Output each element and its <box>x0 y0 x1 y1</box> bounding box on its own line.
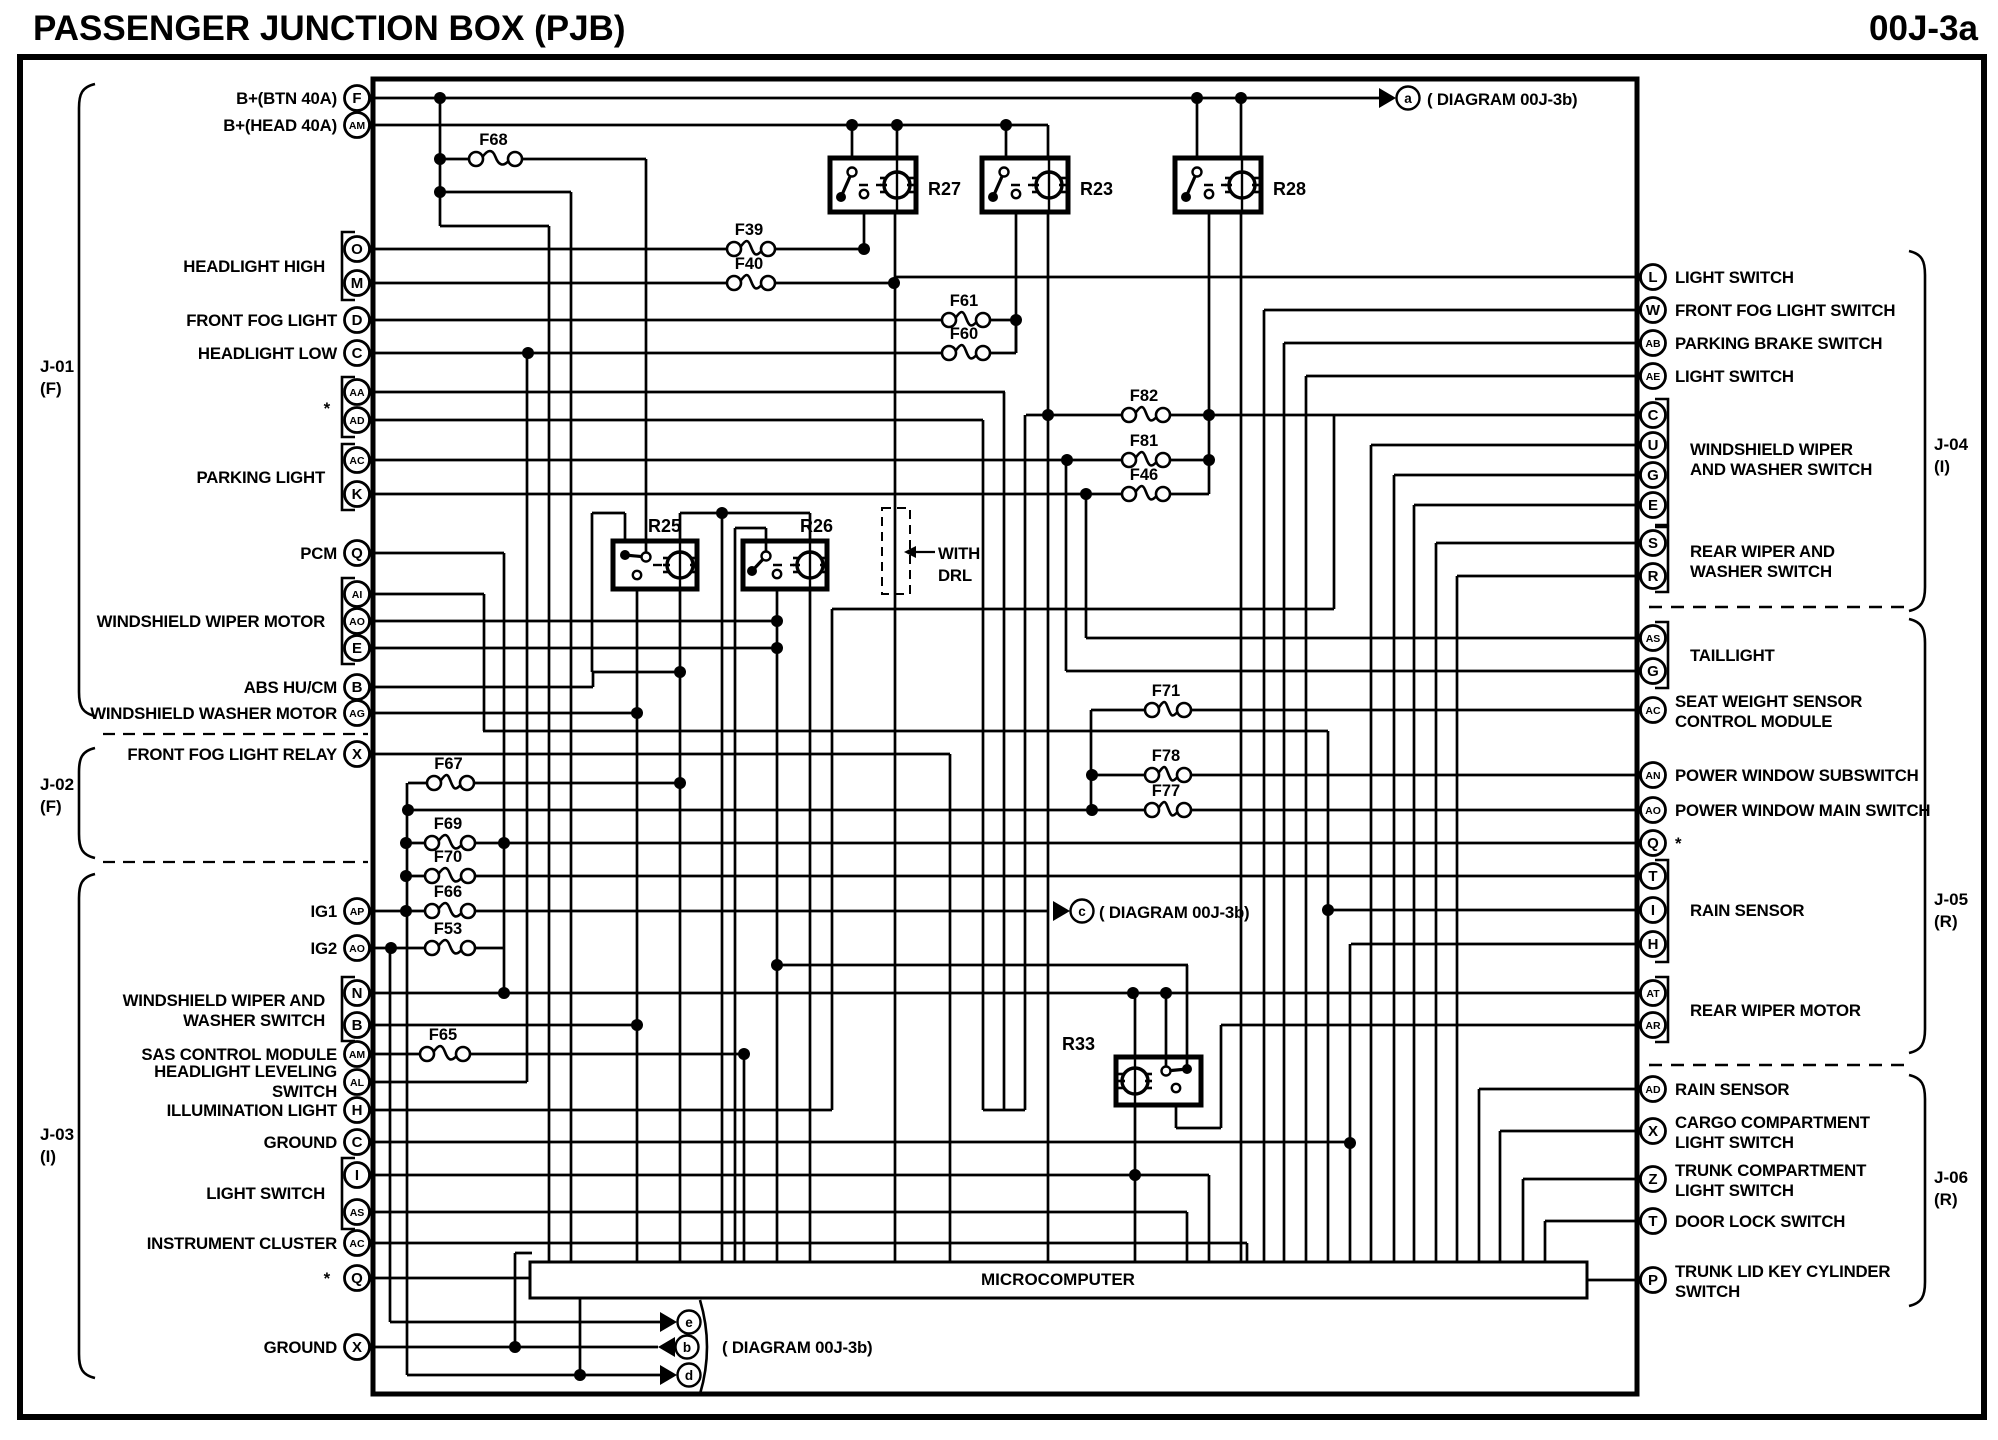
svg-text:I: I <box>355 1167 359 1184</box>
wire F67 row <box>408 782 427 785</box>
wire right pin U row <box>1371 444 1639 447</box>
connector bracket J-02 <box>79 748 95 858</box>
wire rain sensor I feed row <box>483 730 1328 733</box>
svg-text:H: H <box>1648 936 1659 953</box>
svg-text:R27: R27 <box>928 179 961 199</box>
svg-text:HEADLIGHT LEVELING: HEADLIGHT LEVELING <box>154 1062 337 1081</box>
relay R25 <box>613 516 697 589</box>
svg-text:T: T <box>1648 868 1657 885</box>
wire right E riser <box>1413 505 1416 1262</box>
bracket light switch group <box>342 1158 355 1229</box>
svg-text:AD: AD <box>1645 1084 1661 1096</box>
wire right pin E row <box>1414 504 1639 507</box>
svg-text:F66: F66 <box>434 883 462 901</box>
svg-text:DOOR LOCK SWITCH: DOOR LOCK SWITCH <box>1675 1212 1845 1231</box>
svg-text:TRUNK LID KEY CYLINDER: TRUNK LID KEY CYLINDER <box>1675 1262 1890 1281</box>
pin left C headlight low <box>345 341 370 366</box>
svg-text:*: * <box>324 1269 331 1288</box>
bracket headlight high group <box>342 232 355 300</box>
junction F66 tap <box>400 905 412 917</box>
wire R25 switch feed <box>592 512 625 515</box>
wire F61 output <box>990 319 1016 322</box>
wire right pin AE row <box>1306 375 1639 378</box>
pin right T door lock switch <box>1641 1209 1666 1234</box>
svg-text:E: E <box>1648 497 1658 514</box>
svg-text:POWER WINDOW SUBSWITCH: POWER WINDOW SUBSWITCH <box>1675 766 1919 785</box>
svg-text:RAIN SENSOR: RAIN SENSOR <box>1675 1080 1789 1099</box>
junction F46 input tap <box>1080 488 1092 500</box>
svg-text:F77: F77 <box>1152 782 1180 800</box>
wire ABS HU/CM B row <box>374 686 593 689</box>
svg-text:AO: AO <box>1645 805 1661 817</box>
wire F66 output to arrow c <box>475 910 1049 913</box>
svg-text:AD: AD <box>349 415 365 427</box>
svg-text:Q: Q <box>351 1270 363 1287</box>
wire front fog light D / F61 row <box>374 319 942 322</box>
svg-text:a: a <box>1404 91 1412 106</box>
wire ground C row <box>374 1141 1350 1144</box>
wire wiper switch B row <box>374 1024 637 1027</box>
svg-text:AB: AB <box>1645 338 1661 350</box>
dashed separator J-01/J-02 <box>103 733 368 735</box>
svg-text:POWER WINDOW MAIN SWITCH: POWER WINDOW MAIN SWITCH <box>1675 801 1930 820</box>
wire F81 output <box>1170 459 1209 462</box>
wire F69 output / right Q row <box>475 842 1639 845</box>
svg-text:M: M <box>351 275 364 292</box>
svg-text:F68: F68 <box>479 131 507 149</box>
svg-text:AI: AI <box>352 589 363 601</box>
pin right AT rear wiper motor <box>1641 981 1666 1006</box>
svg-text:WINDSHIELD WIPER: WINDSHIELD WIPER <box>1690 440 1853 459</box>
svg-text:Q: Q <box>351 545 363 562</box>
pin left H illumination <box>345 1098 370 1123</box>
svg-text:L: L <box>1648 269 1657 286</box>
svg-text:AS: AS <box>1646 633 1661 645</box>
wire R25 coil output riser <box>679 589 682 1262</box>
pin left AM SAS module <box>345 1042 370 1067</box>
svg-text:HEADLIGHT HIGH: HEADLIGHT HIGH <box>183 257 325 276</box>
pin right AB parking brake switch <box>1641 331 1666 356</box>
svg-text:TAILLIGHT: TAILLIGHT <box>1690 646 1776 665</box>
wire F82 feed riser <box>1024 415 1027 1110</box>
svg-text:*: * <box>324 399 331 418</box>
wire F65 output riser <box>743 1054 746 1262</box>
svg-text:PASSENGER JUNCTION BOX (PJB): PASSENGER JUNCTION BOX (PJB) <box>33 9 626 48</box>
junction F81 out to R28 <box>1203 454 1215 466</box>
svg-text:AA: AA <box>349 387 365 399</box>
wire cargo X riser <box>1499 1131 1502 1262</box>
wire trunk key P row <box>1587 1279 1639 1282</box>
junction F68 input <box>434 153 446 165</box>
pin right I rain sensor <box>1641 898 1666 923</box>
svg-text:AR: AR <box>1645 1020 1661 1032</box>
wire B+ branch riser <box>439 98 442 226</box>
svg-text:RAIN SENSOR: RAIN SENSOR <box>1690 901 1804 920</box>
wire right R riser <box>1456 576 1459 1262</box>
pin left AG washer motor <box>345 701 370 726</box>
wire trunk light Z row <box>1523 1178 1639 1181</box>
bracket wiper washer switch right group <box>1655 399 1668 525</box>
wire PCM Q riser <box>503 553 506 993</box>
pin right AO power window main switch <box>1641 798 1666 823</box>
dashed separator J-04/J-05 <box>1649 606 1906 609</box>
wire PCM Q row <box>374 552 504 555</box>
svg-text:F60: F60 <box>950 325 978 343</box>
pin left B wiper switch <box>345 1013 370 1038</box>
junction arrow d tap <box>574 1369 586 1381</box>
junction F69 tap <box>400 837 412 849</box>
wire F82 output / wiper switch C row <box>1170 414 1639 417</box>
wire headlight low C / F60 row <box>374 352 942 355</box>
bracket rain sensor group <box>1655 860 1668 962</box>
svg-text:WINDSHIELD WASHER MOTOR: WINDSHIELD WASHER MOTOR <box>90 704 337 723</box>
wire right pin G row <box>1394 474 1639 477</box>
wire F82 feed row <box>1026 414 1122 417</box>
pin left AI wiper motor <box>345 582 370 607</box>
svg-text:AG: AG <box>349 708 365 720</box>
svg-text:LIGHT SWITCH: LIGHT SWITCH <box>1675 1133 1794 1152</box>
svg-text:REAR WIPER MOTOR: REAR WIPER MOTOR <box>1690 1001 1861 1020</box>
svg-text:SEAT WEIGHT SENSOR: SEAT WEIGHT SENSOR <box>1675 692 1862 711</box>
svg-text:J-04: J-04 <box>1934 435 1969 454</box>
wire F78 / power window subswitch AN row <box>1092 774 1145 777</box>
wire R23 coil output riser <box>1047 212 1050 1262</box>
svg-text:F78: F78 <box>1152 747 1180 765</box>
svg-text:AM: AM <box>349 1049 366 1061</box>
wire R25 coil top stub <box>679 513 682 541</box>
pin left D front fog light <box>345 308 370 333</box>
svg-text:(F): (F) <box>40 797 62 816</box>
junction F81 input tap <box>1061 454 1073 466</box>
svg-text:AT: AT <box>1646 988 1660 1000</box>
svg-text:F70: F70 <box>434 848 462 866</box>
svg-text:G: G <box>1647 663 1659 680</box>
wire headlight-high O / F39 row <box>374 248 727 251</box>
fuse F78 <box>1145 747 1191 782</box>
wire right pin W row <box>1264 309 1639 312</box>
junction ground to H riser <box>1344 1137 1356 1149</box>
wire R27 switch output stub <box>863 212 866 249</box>
junction AO row to R26 switch <box>771 615 783 627</box>
off-page arrow a (to diagram 00J-3b) <box>1379 88 1396 108</box>
wire rain sensor I riser <box>1327 731 1330 1262</box>
wire fuse feed bus <box>406 783 409 1375</box>
wire washer motor AG row <box>374 712 637 715</box>
wire ABS B jog <box>593 671 680 674</box>
pin right L light switch <box>1641 265 1666 290</box>
wire R25/R26 coil feed <box>680 512 810 515</box>
off-page arrow d (to diagram 00J-3b) <box>660 1365 677 1385</box>
svg-text:J-06: J-06 <box>1934 1168 1968 1187</box>
svg-text:( DIAGRAM 00J-3b): ( DIAGRAM 00J-3b) <box>1427 90 1577 109</box>
junction I row to R33 <box>1129 1169 1141 1181</box>
wire B+(HEAD 40A) AM bus <box>374 124 1048 127</box>
svg-text:F46: F46 <box>1130 466 1158 484</box>
svg-text:F39: F39 <box>735 221 763 239</box>
junction F78 tap <box>1086 769 1098 781</box>
svg-text:W: W <box>1646 302 1661 319</box>
wire R33 coil top riser <box>1134 993 1137 1057</box>
wire R25 pivot feed riser <box>645 159 648 557</box>
wire right AD riser <box>1478 1089 1481 1262</box>
pin left B ABS HU/CM <box>345 675 370 700</box>
junction F82 to R23 coil <box>1042 409 1054 421</box>
pin left E wiper motor <box>345 636 370 661</box>
wire door lock T riser <box>1544 1221 1547 1262</box>
pin right Q * <box>1641 831 1666 856</box>
pin left X ground <box>345 1335 370 1360</box>
svg-text:LIGHT SWITCH: LIGHT SWITCH <box>1675 1181 1794 1200</box>
wire pin AA row <box>374 391 1005 394</box>
svg-text:C: C <box>352 345 363 362</box>
svg-text:LIGHT SWITCH: LIGHT SWITCH <box>1675 367 1794 386</box>
wire right pin S row <box>1436 542 1639 545</box>
junction F67 out node <box>674 777 686 789</box>
connector bracket J-06 <box>1909 1075 1925 1306</box>
fuse F66 <box>425 883 475 918</box>
svg-text:AC: AC <box>349 455 365 467</box>
off-page arrow e (to diagram 00J-3b) <box>660 1312 677 1332</box>
wire F60 output <box>990 352 1016 355</box>
svg-text:IG1: IG1 <box>311 902 337 921</box>
junction F40 out node <box>888 277 900 289</box>
pin left Q PCM <box>345 541 370 566</box>
junction F bus to R28 coil <box>1235 92 1247 104</box>
svg-text:ABS HU/CM: ABS HU/CM <box>244 678 337 697</box>
svg-text:AO: AO <box>349 616 365 628</box>
wire headlight-high M / F40 row <box>374 282 727 285</box>
wire headlight-low to leveling riser <box>526 353 529 1082</box>
svg-text:F: F <box>352 90 361 107</box>
junction N to R33 switch <box>1160 987 1172 999</box>
wire wiper C hang riser <box>1333 415 1336 609</box>
wire R26 switch top riser <box>734 528 737 1262</box>
off-page arrow c (to diagram 00J-3b) <box>1053 901 1070 921</box>
svg-text:AO: AO <box>349 943 365 955</box>
svg-text:F40: F40 <box>735 255 763 273</box>
svg-text:FRONT FOG LIGHT RELAY: FRONT FOG LIGHT RELAY <box>127 745 337 764</box>
wire wiper switch N / rear wiper AT row <box>374 992 1639 995</box>
svg-text:AL: AL <box>350 1077 365 1089</box>
wire wiper motor E row <box>374 647 777 650</box>
junction F65 out node <box>738 1048 750 1060</box>
svg-text:(R): (R) <box>1934 1190 1958 1209</box>
junction F61 out node <box>1010 314 1022 326</box>
svg-text:X: X <box>352 746 362 763</box>
pin right R rear wiper switch <box>1641 564 1666 589</box>
wire R26 coil top stub <box>809 513 812 541</box>
wire SAS control module AM / F65 row <box>374 1053 420 1056</box>
pin left C ground <box>345 1130 370 1155</box>
pin right G taillight <box>1641 659 1666 684</box>
svg-text:F82: F82 <box>1130 387 1158 405</box>
junction B jog node <box>674 666 686 678</box>
svg-text:E: E <box>352 640 362 657</box>
wire R25 switch output riser <box>636 589 639 1262</box>
dashed separator J-02/J-03 <box>103 861 368 863</box>
svg-text:D: D <box>352 312 363 329</box>
fuse F40 <box>727 255 775 290</box>
wire pin AD row <box>374 419 983 422</box>
wire right AE riser <box>1305 376 1308 1262</box>
wire F71 output <box>1191 709 1639 712</box>
wire F65 output <box>470 1053 744 1056</box>
bracket wiper washer switch group <box>342 977 355 1041</box>
svg-text:AC: AC <box>1645 705 1661 717</box>
PJB main box <box>373 79 1637 1394</box>
bracket wiper motor group <box>342 578 355 664</box>
svg-text:J-02: J-02 <box>40 775 74 794</box>
fuse F77 <box>1145 782 1191 817</box>
svg-text:H: H <box>352 1102 363 1119</box>
junction IG2 tap <box>385 942 397 954</box>
pin left AC parking light <box>345 448 370 473</box>
svg-text:X: X <box>1648 1123 1658 1140</box>
svg-text:R28: R28 <box>1273 179 1306 199</box>
pin left F (B+ BTN 40A) <box>345 86 370 111</box>
wire wiper motor AO row <box>374 620 777 623</box>
svg-text:R33: R33 <box>1062 1034 1095 1054</box>
svg-text:R: R <box>1648 568 1659 585</box>
wire R28 coil output riser <box>1240 212 1243 1262</box>
pin left I light switch <box>345 1163 370 1188</box>
wire trunk Z riser <box>1522 1179 1525 1262</box>
fuse F81 <box>1122 432 1170 467</box>
wire R23 coil top stub <box>1047 125 1050 158</box>
wire ABS B jog riser <box>592 672 595 687</box>
wire light switch L row <box>894 276 1639 279</box>
svg-text:(F): (F) <box>40 379 62 398</box>
svg-text:(I): (I) <box>1934 457 1950 476</box>
pin right AD rain sensor <box>1641 1077 1666 1102</box>
fuse F68 <box>469 131 522 166</box>
bracket e/b/d group <box>700 1300 707 1394</box>
wire pin AA riser <box>1003 392 1006 1110</box>
svg-text:SWITCH: SWITCH <box>272 1082 337 1101</box>
pin left O headlight high <box>345 237 370 262</box>
junction N row node <box>498 987 510 999</box>
junction F70 tap <box>400 870 412 882</box>
svg-text:G: G <box>1647 467 1659 484</box>
wire R26 switch top stub <box>765 528 768 557</box>
svg-text:S: S <box>1648 535 1658 552</box>
wire taillight G row <box>1066 670 1639 673</box>
svg-text:F53: F53 <box>434 920 462 938</box>
svg-text:CONTROL MODULE: CONTROL MODULE <box>1675 712 1832 731</box>
wire parking light K / F46 row <box>374 493 1122 496</box>
relay R23 <box>982 158 1113 212</box>
svg-text:REAR WIPER AND: REAR WIPER AND <box>1690 542 1835 561</box>
bracket taillight group <box>1655 622 1668 688</box>
svg-text:b: b <box>683 1340 691 1355</box>
off-page arrow b (from diagram 00J-3b) <box>658 1337 675 1357</box>
wire F68 branch upper riser <box>570 192 573 1262</box>
wire right pin AB row <box>1284 342 1639 345</box>
junction N to R33 coil <box>1127 987 1139 999</box>
junction F bus to R28 switch <box>1191 92 1203 104</box>
svg-text:J-05: J-05 <box>1934 890 1968 909</box>
svg-text:WINDSHIELD WIPER MOTOR: WINDSHIELD WIPER MOTOR <box>97 612 325 631</box>
junction AM bus to R27 switch <box>846 119 858 131</box>
wire F40 output to node <box>775 282 894 285</box>
fuse F69 <box>425 815 475 850</box>
svg-text:F61: F61 <box>950 292 978 310</box>
wire R27 coil output riser <box>894 212 897 1262</box>
wire R33 switch blade riser <box>1186 965 1189 1069</box>
pin right X cargo light switch <box>1641 1119 1666 1144</box>
junction R33 switch feed tap <box>771 959 783 971</box>
wire right AB riser <box>1283 343 1286 1262</box>
svg-text:B+(HEAD 40A): B+(HEAD 40A) <box>223 116 337 135</box>
junction AM bus to R27 coil <box>891 119 903 131</box>
wire R27 switch top stub <box>851 125 854 158</box>
wire right pin R row <box>1457 575 1639 578</box>
wire light switch AS row <box>374 1211 1187 1214</box>
wire arrow-b riser link <box>515 1252 532 1255</box>
wire R33 to rear wiper AR riser <box>1220 1025 1223 1128</box>
wire R25 switch feed riser <box>591 513 594 672</box>
wire instrument cluster riser <box>1246 1243 1249 1262</box>
svg-text:MICROCOMPUTER: MICROCOMPUTER <box>981 1270 1135 1289</box>
junction F68 branch upper <box>434 186 446 198</box>
pin right AC seat weight sensor <box>1641 698 1666 723</box>
pin left Q * <box>345 1266 370 1291</box>
svg-text:R26: R26 <box>800 516 833 536</box>
svg-text:*: * <box>1675 834 1682 853</box>
wire F68 branch stub upper <box>440 191 571 194</box>
wire power window main AO / F77 row <box>408 809 1145 812</box>
bracket AA/AD group <box>342 377 355 437</box>
svg-text:AP: AP <box>350 906 365 918</box>
pin right C wiper switch <box>1641 403 1666 428</box>
svg-text:N: N <box>352 985 363 1002</box>
pin left AM (B+ HEAD 40A) <box>345 113 370 138</box>
wire F70 row <box>406 875 425 878</box>
pin right S rear wiper switch <box>1641 531 1666 556</box>
wire parking light to taillight G riser <box>1065 460 1068 671</box>
svg-text:FRONT FOG LIGHT: FRONT FOG LIGHT <box>186 311 338 330</box>
junction F69 out node <box>498 837 510 849</box>
svg-text:(R): (R) <box>1934 912 1958 931</box>
wire R28 switch output riser <box>1208 212 1211 494</box>
bracket rear wiper motor group <box>1655 977 1668 1042</box>
pin left AA <box>345 380 370 405</box>
wire F69 row <box>406 842 425 845</box>
pin left AO wiper motor <box>345 609 370 634</box>
wire R33 switch pivot riser <box>1165 993 1168 1071</box>
svg-text:F65: F65 <box>429 1026 457 1044</box>
svg-text:d: d <box>685 1368 693 1383</box>
pin right AN power window subswitch <box>1641 763 1666 788</box>
junction AG to R25 riser <box>631 707 643 719</box>
svg-text:T: T <box>1648 1213 1657 1230</box>
svg-text:FRONT FOG LIGHT SWITCH: FRONT FOG LIGHT SWITCH <box>1675 301 1895 320</box>
wire R28 coil top stub <box>1240 98 1243 158</box>
pin right U wiper switch <box>1641 433 1666 458</box>
svg-text:INSTRUMENT CLUSTER: INSTRUMENT CLUSTER <box>147 1234 337 1253</box>
svg-text:X: X <box>352 1339 362 1356</box>
fuse F71 <box>1145 682 1191 717</box>
pin right G wiper switch <box>1641 463 1666 488</box>
svg-text:AE: AE <box>1646 371 1661 383</box>
pin right H rain sensor <box>1641 932 1666 957</box>
junction E row to R26 switch <box>771 642 783 654</box>
wire R33 collector row <box>983 1109 1025 1112</box>
junction F77 tap <box>1086 804 1098 816</box>
svg-text:F71: F71 <box>1152 682 1180 700</box>
svg-text:DRL: DRL <box>938 566 972 585</box>
wire AI to rain-sensor-I riser <box>483 594 486 731</box>
